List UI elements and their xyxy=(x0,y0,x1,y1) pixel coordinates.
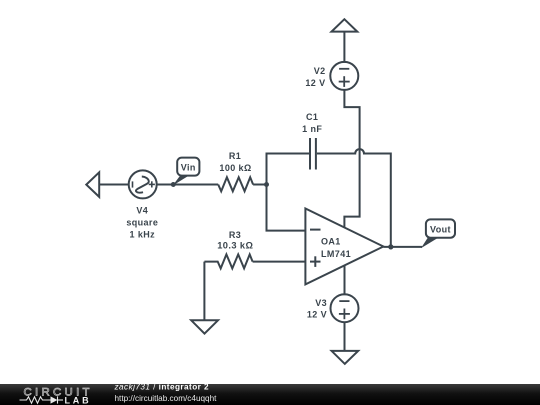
terminal T1 (left, pointing left) xyxy=(86,172,99,197)
svg-text:10.3 kΩ: 10.3 kΩ xyxy=(217,240,253,250)
ground under R3 xyxy=(203,262,205,321)
wire V2 to op-amp V+ pin xyxy=(344,90,359,228)
svg-text:V2: V2 xyxy=(314,66,326,76)
svg-text:V3: V3 xyxy=(315,298,327,308)
label V4 xyxy=(126,206,158,240)
svg-text:12 V: 12 V xyxy=(307,309,327,319)
svg-text:Vout: Vout xyxy=(430,224,451,234)
svg-text:1 kHz: 1 kHz xyxy=(130,230,156,240)
svg-text:zackj731 / integrator 2: zackj731 / integrator 2 xyxy=(114,383,210,392)
wire op-amp output xyxy=(383,246,422,248)
capacitor C1 xyxy=(310,138,316,170)
wire V4 to R1 xyxy=(157,184,219,186)
svg-text:12 V: 12 V xyxy=(305,78,325,88)
svg-text:LAB: LAB xyxy=(65,395,92,405)
svg-text:R3: R3 xyxy=(229,230,241,240)
op-amp OA1 triangle xyxy=(305,209,383,285)
svg-text:100 kΩ: 100 kΩ xyxy=(219,163,251,173)
flag tail Vout xyxy=(421,237,440,249)
resistor R1 xyxy=(218,177,253,191)
terminal T2 (top, pointing up) xyxy=(332,19,358,31)
resistor R3 xyxy=(204,254,252,268)
label C1 xyxy=(302,112,322,134)
wire V3 to ground xyxy=(344,322,346,351)
flag tail Vin xyxy=(173,175,191,186)
source V3 xyxy=(331,294,359,322)
wire R1 to node xyxy=(253,184,266,186)
svg-text:Vin: Vin xyxy=(181,162,196,172)
svg-text:square: square xyxy=(126,218,158,228)
op-amp minus pin mark xyxy=(310,229,321,231)
op-amp plus pin mark xyxy=(310,256,321,267)
node at output junction dot xyxy=(388,244,393,249)
svg-text:R1: R1 xyxy=(229,151,241,161)
node at R1 right junction dot xyxy=(264,182,269,187)
wire T2 to V2 xyxy=(343,32,345,63)
wire node up to C1 xyxy=(267,154,310,185)
label R3 xyxy=(217,230,253,250)
footer logo resistor-diode-LAB xyxy=(20,396,64,403)
svg-text:1 nF: 1 nF xyxy=(302,124,322,134)
svg-text:LM741: LM741 xyxy=(321,249,351,259)
svg-text:V4: V4 xyxy=(136,206,148,216)
wire op-amp V- pin to V3 xyxy=(344,266,346,296)
label R1 xyxy=(219,151,251,173)
label V2 xyxy=(305,66,325,88)
wire R3 to op-amp plus input xyxy=(253,261,306,263)
label V3 xyxy=(307,298,327,319)
flag Vin box xyxy=(177,158,199,176)
node Vin junction dot xyxy=(171,182,176,187)
svg-text:C1: C1 xyxy=(306,112,318,122)
wire node down to op-amp minus input xyxy=(267,185,306,231)
label OA1 xyxy=(321,236,351,258)
svg-text:OA1: OA1 xyxy=(321,236,341,246)
wire T1 to V4 xyxy=(99,184,129,186)
ground under V3 xyxy=(332,351,359,364)
wire C1 to right with hop xyxy=(317,149,391,247)
source V2 xyxy=(330,62,358,90)
flag Vout box xyxy=(426,219,455,237)
svg-text:http://circuitlab.com/c4uqqht: http://circuitlab.com/c4uqqht xyxy=(115,394,218,403)
source V4 (square wave) xyxy=(129,170,157,198)
